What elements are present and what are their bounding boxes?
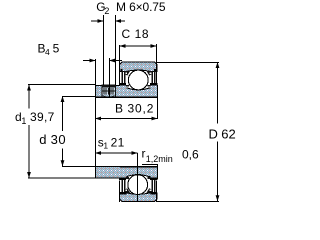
seal lip wedge right upper [146,70,152,75]
outer ring upper band [120,62,158,71]
d1 top extension line [28,84,96,85]
dimension B (arrows inside) [95,117,158,121]
svg-text:1: 1 [103,141,108,151]
svg-text:30,2: 30,2 [128,101,155,115]
d bottom extension line [62,166,96,167]
seal left upper [119,62,120,84]
svg-text:0,6: 0,6 [182,148,199,162]
svg-text:21: 21 [111,135,125,149]
collar left face extension line [95,59,96,167]
outer ring lower band [120,193,158,201]
d top extension line [62,96,96,97]
C left extension line [119,45,120,62]
seal shoulder step right lower [147,177,150,179]
screw axis line [109,58,110,85]
svg-text:M 6×0.75: M 6×0.75 [116,0,166,14]
seal shoulder step right upper [147,85,150,87]
inner ring right face extension line [157,97,158,119]
inner ring sleeve upper with raceway groove [120,88,157,97]
seal lip wedge left lower [124,188,130,193]
seal seat right upper [151,85,157,96]
set screw G2 [101,85,115,88]
G2 left extension line [103,15,104,85]
dimension G2 (arrows outside) [91,19,125,23]
svg-text:18: 18 [135,27,149,41]
svg-text:2: 2 [104,6,109,16]
r chamfer leader line [142,164,158,165]
svg-text:39,7: 39,7 [30,110,55,124]
dimension D vertical [216,62,220,201]
dimension s1 (arrows inside) [95,151,138,155]
seal lip wedge left upper [124,70,130,75]
inner ring sleeve lower with raceway groove [120,167,157,177]
D bottom extension line [156,201,219,202]
raceway centerline lower (s1 extension) [137,153,138,201]
svg-text:1,2min: 1,2min [146,154,173,164]
seal shoulder step left lower [126,177,129,179]
svg-text:D: D [209,127,218,142]
svg-text:62: 62 [221,127,235,142]
D top extension line [157,62,219,63]
seal seat left upper [120,85,126,96]
d1 bottom extension line [28,178,96,179]
ball upper [128,70,148,90]
svg-text:30: 30 [51,132,66,147]
seal right lower [156,181,157,203]
C right extension line [156,44,157,62]
dimension d1 vertical [27,85,31,179]
seal lip wedge right lower [146,188,152,193]
bore line lower [95,166,158,168]
seal left lower [119,181,120,203]
svg-text:d: d [39,132,46,147]
inner ring collar lower [96,167,121,178]
ball lower [128,175,148,195]
bore line upper [95,97,158,99]
svg-text:C: C [122,27,131,41]
svg-text:B: B [115,101,123,115]
inner ring collar upper [96,86,121,98]
svg-text:1: 1 [21,116,26,126]
svg-text:5: 5 [53,41,60,55]
seal seat right lower [151,167,157,178]
G2 right extension line [115,15,116,85]
seal shoulder step left upper [126,85,129,87]
dimension d vertical [61,96,65,166]
dimension B4 (arrows outside) [83,59,122,63]
seal right upper [156,62,157,84]
seal seat left lower [120,167,126,178]
svg-text:4: 4 [45,47,50,57]
dimension C (arrows inside) [120,44,157,48]
